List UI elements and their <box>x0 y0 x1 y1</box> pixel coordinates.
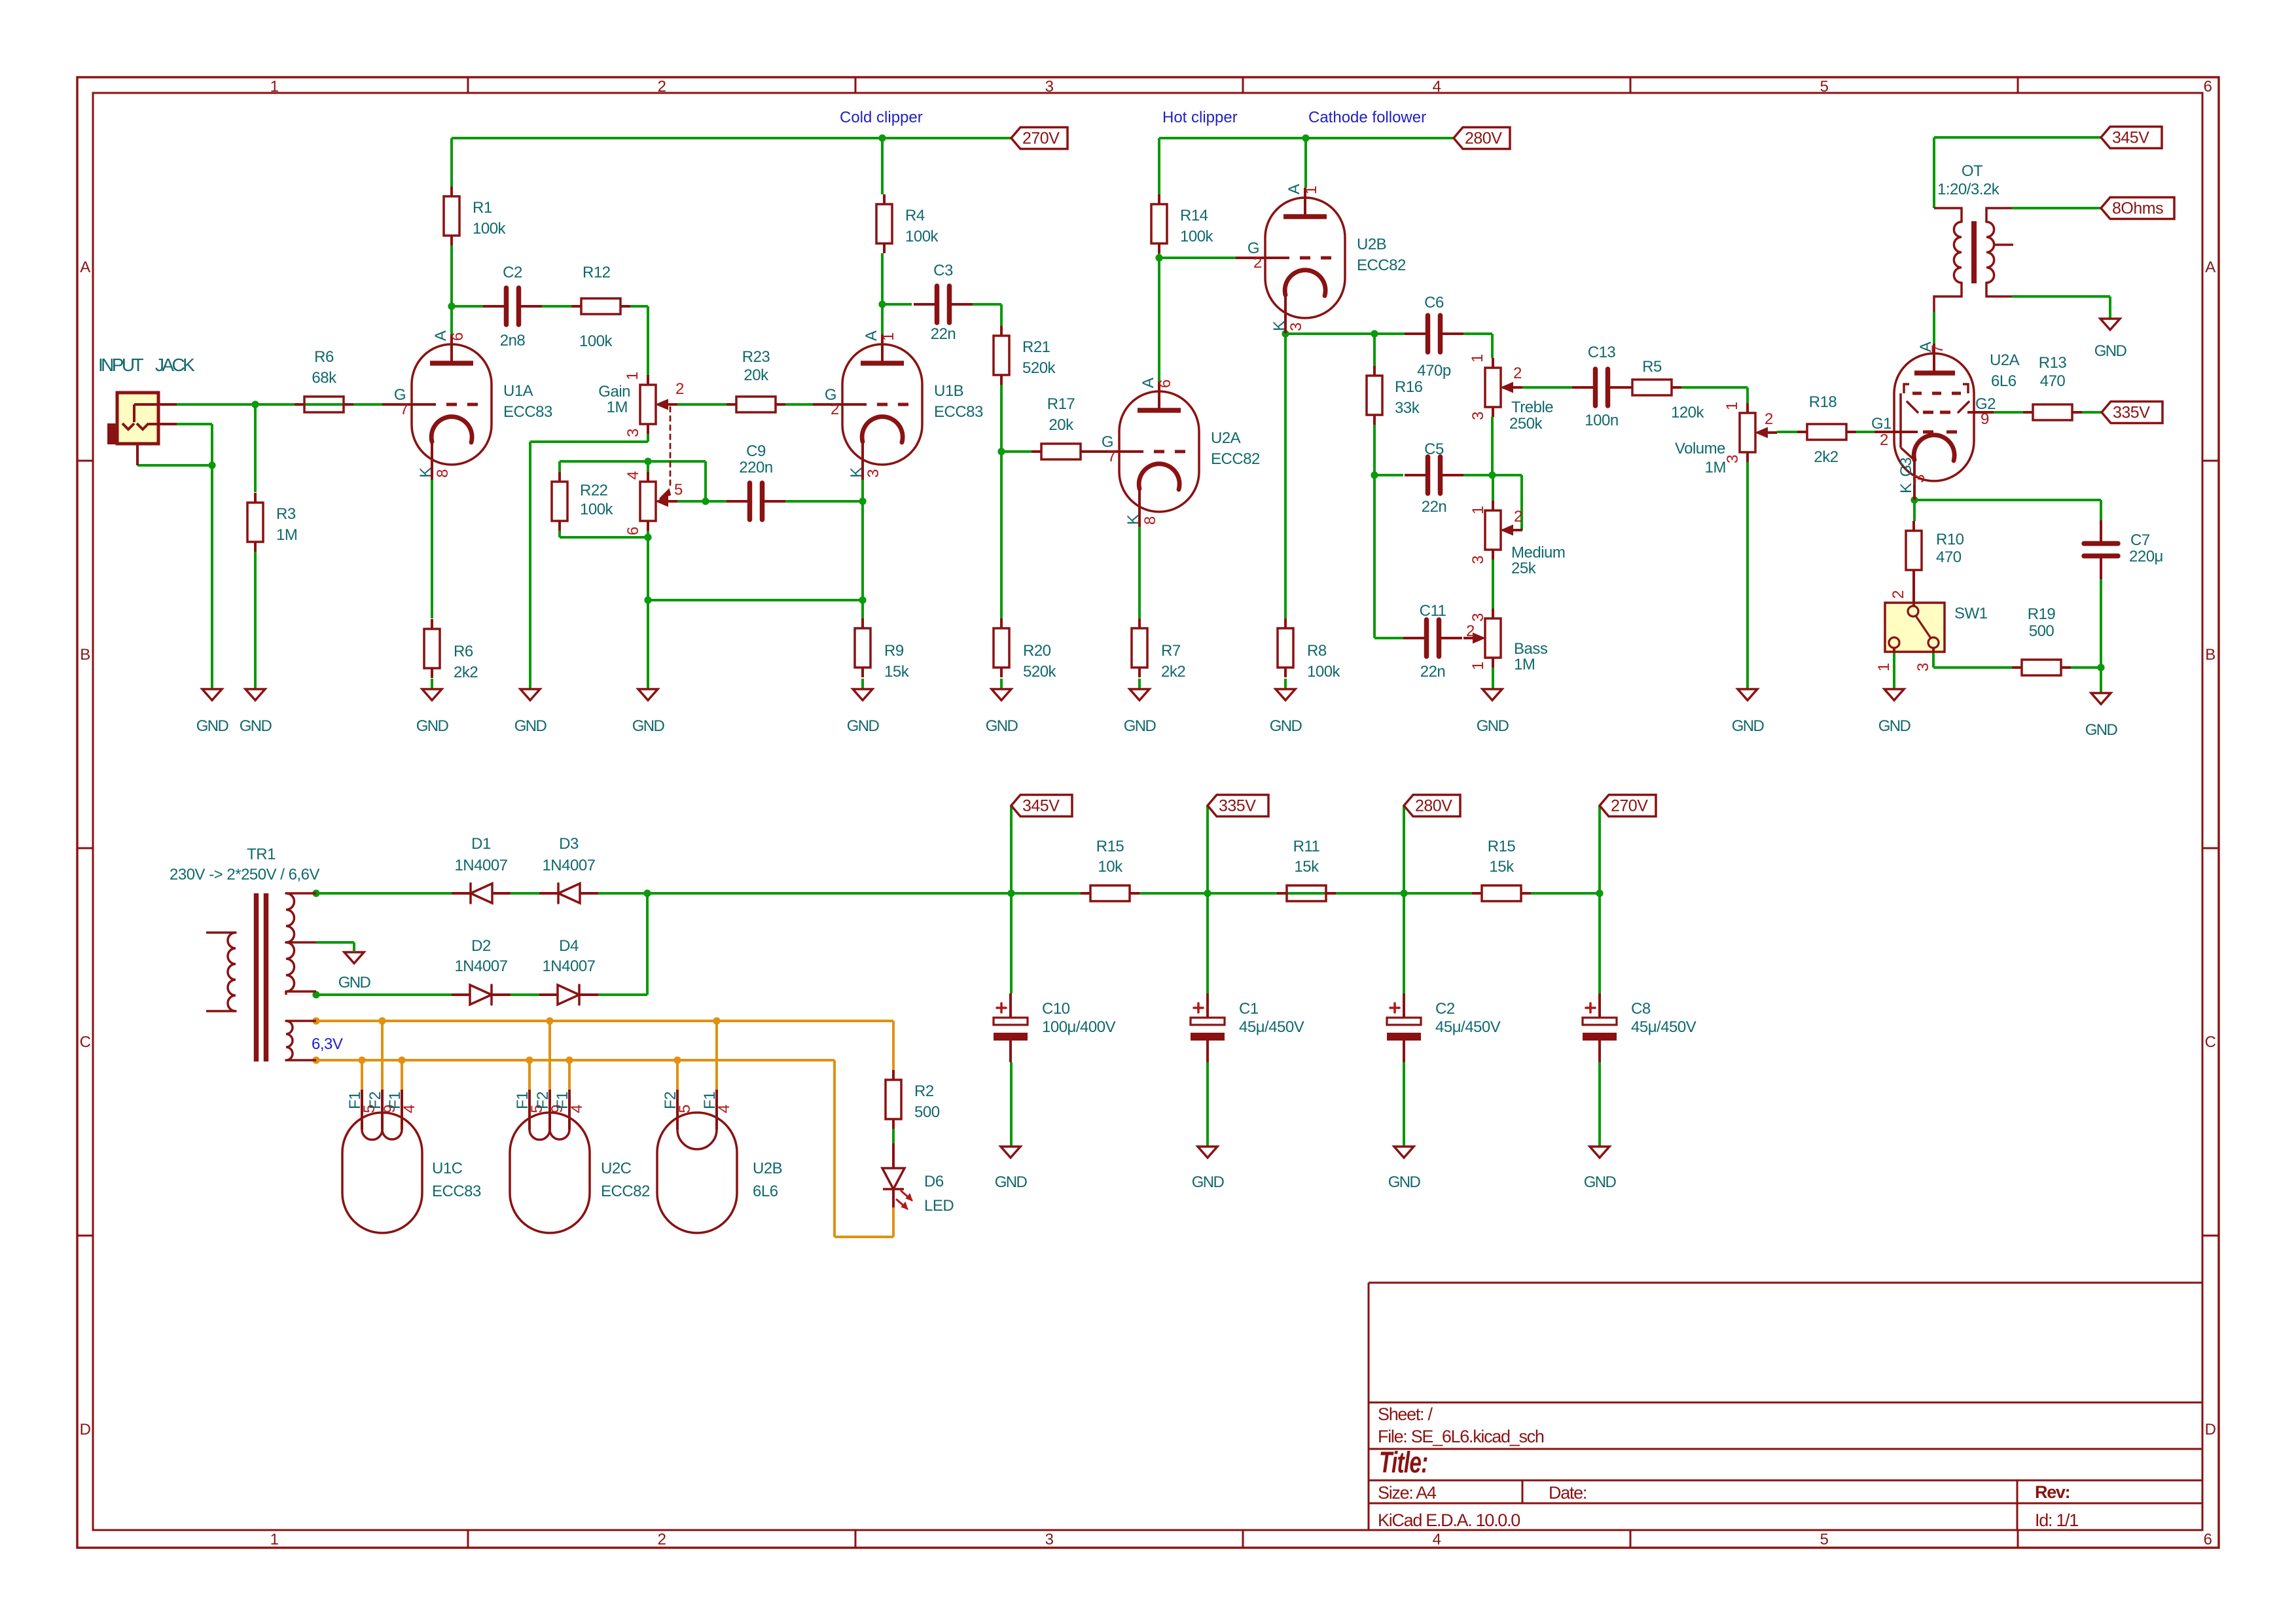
svg-text:R23: R23 <box>742 348 770 366</box>
svg-text:K: K <box>1124 514 1142 525</box>
svg-text:100μ/400V: 100μ/400V <box>1042 1018 1116 1036</box>
svg-text:20k: 20k <box>744 366 769 384</box>
svg-text:Volume: Volume <box>1675 440 1725 457</box>
svg-text:R18: R18 <box>1809 393 1837 411</box>
svg-text:R5: R5 <box>1642 358 1662 376</box>
svg-text:5: 5 <box>1820 78 1829 96</box>
svg-text:File: SE_6L6.kicad_sch: File: SE_6L6.kicad_sch <box>1378 1427 1544 1446</box>
svg-text:4: 4 <box>568 1105 586 1113</box>
svg-text:3: 3 <box>1469 613 1487 622</box>
svg-text:INPUT: INPUT <box>98 355 143 375</box>
svg-text:2: 2 <box>658 1531 666 1548</box>
svg-text:R17: R17 <box>1047 395 1075 413</box>
svg-text:4: 4 <box>1433 78 1441 96</box>
svg-text:280V: 280V <box>1465 130 1502 148</box>
svg-text:D6: D6 <box>924 1173 944 1190</box>
svg-text:3: 3 <box>1910 474 1928 483</box>
svg-text:6L6: 6L6 <box>753 1183 778 1200</box>
svg-text:1N4007: 1N4007 <box>542 957 595 975</box>
svg-text:9: 9 <box>1981 410 1989 428</box>
svg-text:R22: R22 <box>580 482 608 499</box>
svg-text:2: 2 <box>1513 365 1522 382</box>
svg-text:6: 6 <box>2204 78 2212 96</box>
svg-text:15k: 15k <box>1489 858 1515 876</box>
svg-text:Date:: Date: <box>1549 1483 1587 1503</box>
svg-text:100k: 100k <box>579 332 613 350</box>
svg-text:GND: GND <box>1270 717 1302 735</box>
svg-text:GND: GND <box>1584 1173 1617 1191</box>
svg-text:R6: R6 <box>454 643 473 660</box>
svg-text:D: D <box>2205 1421 2216 1438</box>
svg-text:Medium: Medium <box>1511 544 1565 562</box>
svg-text:20k: 20k <box>1049 416 1074 434</box>
svg-text:A: A <box>1139 378 1157 388</box>
svg-text:Id: 1/1: Id: 1/1 <box>2035 1510 2078 1530</box>
svg-text:R2: R2 <box>914 1082 934 1100</box>
svg-text:GND: GND <box>1878 717 1911 735</box>
svg-text:220n: 220n <box>739 459 772 476</box>
svg-text:R16: R16 <box>1395 378 1423 396</box>
svg-text:100k: 100k <box>580 501 614 518</box>
svg-text:R10: R10 <box>1936 531 1964 548</box>
svg-text:ECC82: ECC82 <box>1211 450 1260 468</box>
svg-text:270V: 270V <box>1022 130 1060 148</box>
svg-text:GND: GND <box>995 1173 1028 1191</box>
svg-text:1: 1 <box>624 372 641 380</box>
svg-text:Treble: Treble <box>1511 399 1553 416</box>
svg-text:1M: 1M <box>1514 656 1535 673</box>
svg-text:A: A <box>1285 184 1303 194</box>
svg-text:R13: R13 <box>2039 354 2067 372</box>
svg-text:500: 500 <box>914 1103 940 1121</box>
svg-text:GND: GND <box>338 974 371 991</box>
svg-text:4: 4 <box>1433 1531 1441 1548</box>
svg-text:2: 2 <box>675 380 684 398</box>
svg-text:ECC83: ECC83 <box>934 403 983 421</box>
svg-text:SW1: SW1 <box>1954 605 1988 622</box>
svg-text:U1C: U1C <box>432 1160 463 1177</box>
svg-text:D2: D2 <box>471 937 491 955</box>
svg-text:GND: GND <box>2085 721 2118 739</box>
svg-text:U2A: U2A <box>1990 351 2020 369</box>
svg-text:3: 3 <box>624 429 642 437</box>
svg-text:335V: 335V <box>2113 404 2150 422</box>
svg-text:100k: 100k <box>1180 228 1214 245</box>
svg-text:U1B: U1B <box>934 382 963 400</box>
svg-text:C1: C1 <box>1239 1000 1259 1018</box>
svg-text:A: A <box>863 330 880 341</box>
svg-text:45μ/450V: 45μ/450V <box>1631 1018 1696 1036</box>
svg-text:ECC83: ECC83 <box>503 403 552 421</box>
svg-text:1: 1 <box>1875 663 1893 671</box>
svg-text:4: 4 <box>715 1105 733 1113</box>
svg-text:C11: C11 <box>1420 602 1446 620</box>
svg-text:GND: GND <box>2094 342 2127 360</box>
svg-text:8Ohms: 8Ohms <box>2112 200 2163 218</box>
svg-text:1: 1 <box>270 1531 279 1548</box>
svg-text:TR1: TR1 <box>247 846 276 863</box>
svg-text:33k: 33k <box>1395 399 1420 417</box>
svg-text:4: 4 <box>624 471 642 480</box>
svg-text:2n8: 2n8 <box>500 332 526 349</box>
svg-text:2: 2 <box>658 78 666 96</box>
svg-text:6: 6 <box>449 332 467 341</box>
svg-text:2: 2 <box>1880 431 1888 449</box>
svg-text:270V: 270V <box>1611 797 1648 815</box>
svg-text:5: 5 <box>676 1105 694 1113</box>
svg-text:2: 2 <box>831 401 839 418</box>
svg-text:6L6: 6L6 <box>1991 372 2017 390</box>
svg-text:GND: GND <box>240 717 272 735</box>
svg-text:R21: R21 <box>1022 338 1050 356</box>
svg-text:100k: 100k <box>473 220 507 238</box>
svg-text:A: A <box>80 259 90 276</box>
svg-text:3: 3 <box>1287 323 1305 331</box>
svg-text:GND: GND <box>1732 717 1765 735</box>
svg-text:470: 470 <box>1936 548 1962 566</box>
svg-text:GND: GND <box>1477 717 1509 735</box>
svg-text:U2B: U2B <box>753 1160 782 1177</box>
svg-text:8: 8 <box>1141 516 1159 525</box>
svg-text:6: 6 <box>1157 380 1174 388</box>
svg-text:C9: C9 <box>746 442 766 460</box>
svg-text:1:20/3.2k: 1:20/3.2k <box>1937 181 2000 198</box>
svg-text:1: 1 <box>1469 506 1487 514</box>
svg-text:LED: LED <box>924 1197 954 1215</box>
svg-text:R14: R14 <box>1180 207 1208 224</box>
svg-text:1: 1 <box>1469 354 1486 363</box>
svg-text:2: 2 <box>1765 410 1773 428</box>
svg-text:R1: R1 <box>473 199 492 217</box>
svg-text:D4: D4 <box>559 937 579 955</box>
svg-text:Bass: Bass <box>1514 640 1548 658</box>
svg-text:GND: GND <box>416 717 449 735</box>
svg-text:D: D <box>80 1421 91 1438</box>
svg-text:7: 7 <box>1107 448 1116 465</box>
svg-text:520k: 520k <box>1022 359 1056 377</box>
svg-text:1: 1 <box>1469 662 1487 670</box>
svg-text:C10: C10 <box>1042 1000 1070 1018</box>
svg-text:2: 2 <box>1890 590 1907 599</box>
svg-text:GND: GND <box>1388 1173 1421 1191</box>
svg-text:C2: C2 <box>1435 1000 1455 1018</box>
svg-text:K: K <box>848 467 865 478</box>
svg-text:3: 3 <box>865 469 882 478</box>
svg-text:470: 470 <box>2040 372 2066 390</box>
svg-text:JACK: JACK <box>155 355 195 375</box>
svg-text:A: A <box>432 330 450 341</box>
svg-text:OT: OT <box>1962 162 1983 180</box>
svg-text:15k: 15k <box>1294 858 1319 876</box>
svg-text:100k: 100k <box>905 228 939 245</box>
svg-text:1N4007: 1N4007 <box>542 857 595 874</box>
svg-text:4: 4 <box>401 1105 418 1113</box>
svg-text:22n: 22n <box>1420 663 1446 681</box>
svg-text:5: 5 <box>674 481 683 499</box>
svg-text:22n: 22n <box>1422 498 1447 516</box>
svg-text:GND: GND <box>1124 717 1157 735</box>
svg-text:C8: C8 <box>1631 1000 1651 1018</box>
svg-text:2: 2 <box>1514 508 1522 526</box>
svg-text:Sheet: /: Sheet: / <box>1378 1404 1433 1424</box>
svg-text:45μ/450V: 45μ/450V <box>1435 1018 1501 1036</box>
svg-text:R7: R7 <box>1161 642 1181 660</box>
svg-text:3: 3 <box>1469 412 1487 420</box>
svg-text:3: 3 <box>1914 663 1932 671</box>
svg-text:45μ/450V: 45μ/450V <box>1239 1018 1304 1036</box>
svg-text:U2A: U2A <box>1211 429 1241 447</box>
svg-text:C: C <box>2205 1033 2216 1051</box>
svg-text:G1: G1 <box>1871 415 1892 433</box>
svg-text:6: 6 <box>2204 1531 2212 1548</box>
svg-text:7: 7 <box>400 401 408 418</box>
svg-text:GND: GND <box>514 717 547 735</box>
svg-text:1M: 1M <box>607 399 628 416</box>
svg-text:2k2: 2k2 <box>454 664 478 681</box>
svg-text:C5: C5 <box>1424 440 1444 458</box>
svg-text:520k: 520k <box>1023 663 1057 681</box>
svg-text:K: K <box>417 467 435 478</box>
svg-text:1M: 1M <box>276 526 297 544</box>
svg-text:15k: 15k <box>884 663 910 681</box>
svg-text:3: 3 <box>1045 78 1054 96</box>
svg-text:Hot clipper: Hot clipper <box>1162 109 1238 126</box>
svg-text:U2C: U2C <box>601 1160 632 1177</box>
svg-text:345V: 345V <box>1022 797 1060 815</box>
svg-text:ECC83: ECC83 <box>432 1183 481 1200</box>
svg-text:A: A <box>2205 259 2215 276</box>
svg-text:7: 7 <box>1929 345 1946 353</box>
svg-text:C7: C7 <box>2130 531 2150 549</box>
svg-text:3: 3 <box>1724 455 1742 463</box>
svg-text:120k: 120k <box>1671 404 1705 421</box>
svg-text:R19: R19 <box>2028 605 2056 623</box>
svg-text:R12: R12 <box>583 264 611 281</box>
svg-text:Cathode follower: Cathode follower <box>1308 109 1426 126</box>
svg-text:C3: C3 <box>933 262 953 279</box>
svg-text:2: 2 <box>1466 622 1475 640</box>
svg-text:R6: R6 <box>314 348 334 366</box>
svg-text:500: 500 <box>2029 622 2054 640</box>
svg-text:1: 1 <box>1723 402 1741 410</box>
svg-text:C6: C6 <box>1424 294 1444 312</box>
svg-text:R4: R4 <box>905 207 925 224</box>
svg-text:6,3V: 6,3V <box>312 1035 343 1053</box>
svg-text:230V -> 2*250V / 6,6V: 230V -> 2*250V / 6,6V <box>170 866 320 883</box>
svg-text:B: B <box>2205 646 2215 664</box>
svg-text:Gain: Gain <box>598 383 630 401</box>
svg-text:220μ: 220μ <box>2129 548 2163 565</box>
svg-text:U1A: U1A <box>503 382 533 400</box>
svg-text:U2B: U2B <box>1357 236 1386 253</box>
svg-text:250k: 250k <box>1509 415 1543 433</box>
svg-text:D3: D3 <box>559 835 579 853</box>
svg-text:3: 3 <box>1469 556 1487 564</box>
svg-text:345V: 345V <box>2112 129 2149 147</box>
svg-text:470p: 470p <box>1417 362 1451 380</box>
svg-text:1N4007: 1N4007 <box>454 957 507 975</box>
svg-text:GND: GND <box>632 717 665 735</box>
svg-text:100k: 100k <box>1307 663 1341 681</box>
svg-text:1N4007: 1N4007 <box>454 857 507 874</box>
svg-text:22n: 22n <box>931 325 956 343</box>
svg-text:R15: R15 <box>1096 838 1124 855</box>
svg-text:R8: R8 <box>1307 642 1327 660</box>
svg-text:R11: R11 <box>1293 838 1320 855</box>
svg-text:280V: 280V <box>1415 797 1452 815</box>
svg-text:GND: GND <box>1192 1173 1225 1191</box>
svg-text:R9: R9 <box>884 642 904 660</box>
svg-text:K: K <box>1270 321 1288 331</box>
svg-text:68k: 68k <box>312 369 337 387</box>
svg-text:8: 8 <box>434 469 452 478</box>
svg-text:Rev:: Rev: <box>2035 1482 2070 1502</box>
svg-text:6: 6 <box>624 527 642 535</box>
svg-text:R20: R20 <box>1023 642 1051 660</box>
svg-text:R3: R3 <box>276 505 296 523</box>
svg-text:Cold clipper: Cold clipper <box>840 109 923 126</box>
svg-text:100n: 100n <box>1585 412 1618 429</box>
svg-text:10k: 10k <box>1098 858 1123 876</box>
svg-text:GND: GND <box>196 717 229 735</box>
svg-text:Title:: Title: <box>1379 1446 1427 1479</box>
svg-text:KiCad E.D.A. 10.0.0: KiCad E.D.A. 10.0.0 <box>1378 1510 1520 1530</box>
svg-text:GND: GND <box>847 717 880 735</box>
svg-text:1: 1 <box>1302 186 1320 194</box>
svg-text:335V: 335V <box>1219 797 1256 815</box>
svg-text:C2: C2 <box>503 264 522 281</box>
svg-text:1: 1 <box>270 78 279 96</box>
svg-text:ECC82: ECC82 <box>1357 257 1406 274</box>
svg-text:C: C <box>80 1033 91 1051</box>
svg-text:5: 5 <box>1820 1531 1829 1548</box>
svg-text:2: 2 <box>1253 254 1262 272</box>
svg-text:C13: C13 <box>1588 344 1616 361</box>
svg-text:D1: D1 <box>471 835 491 853</box>
svg-text:25k: 25k <box>1511 560 1537 577</box>
svg-text:GND: GND <box>986 717 1018 735</box>
svg-text:Size: A4: Size: A4 <box>1378 1483 1437 1503</box>
svg-text:ECC82: ECC82 <box>601 1183 650 1200</box>
svg-text:R15: R15 <box>1488 838 1516 855</box>
svg-text:2k2: 2k2 <box>1161 663 1185 681</box>
svg-text:3: 3 <box>1045 1531 1054 1548</box>
svg-text:1: 1 <box>880 332 897 341</box>
svg-text:1M: 1M <box>1705 459 1726 476</box>
svg-text:B: B <box>80 646 90 664</box>
svg-text:2k2: 2k2 <box>1814 448 1838 466</box>
